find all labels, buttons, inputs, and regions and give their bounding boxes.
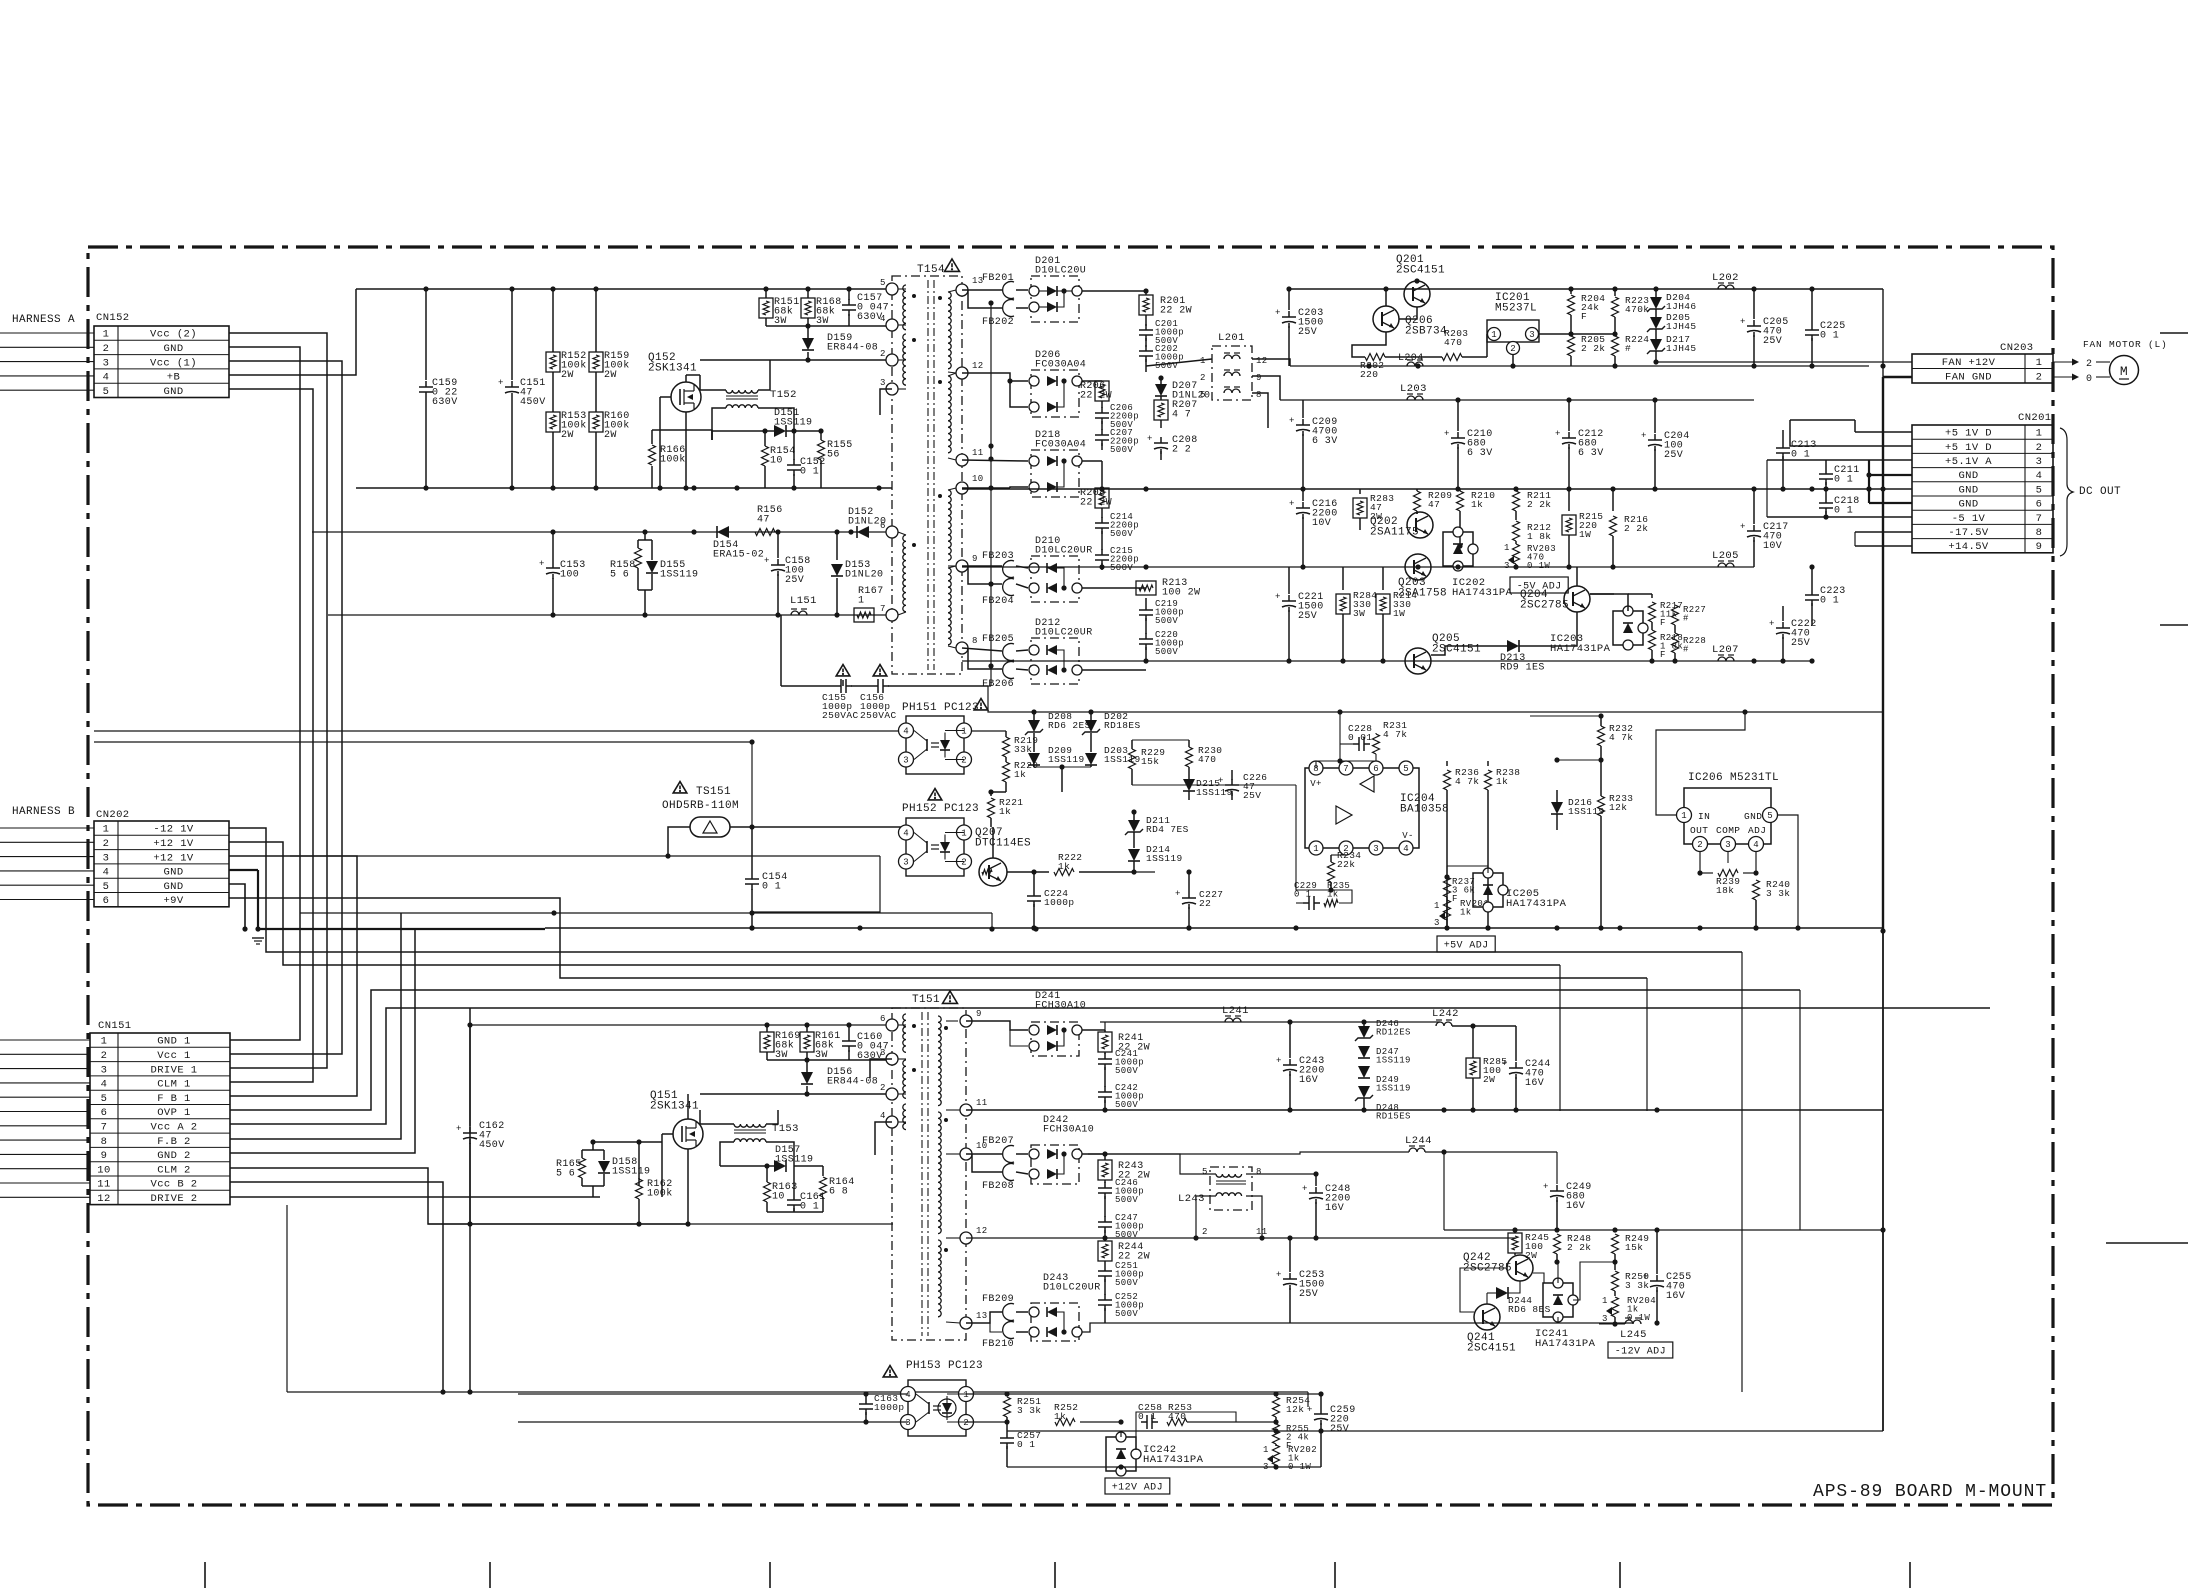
wire D217 to CN203 pin1 [1656, 361, 1912, 363]
svg-text:450V: 450V [520, 397, 546, 408]
svg-text:3: 3 [1373, 844, 1378, 854]
wire pin3 COMP down [1727, 851, 1729, 863]
svg-text:1k: 1k [999, 806, 1011, 817]
svg-text:RD9 1ES: RD9 1ES [1500, 663, 1545, 674]
svg-text:2W: 2W [604, 430, 617, 441]
svg-text:22 2W: 22 2W [1160, 306, 1192, 317]
svg-text:-17.5V: -17.5V [1948, 527, 1989, 539]
bus wire y489 right section [962, 488, 1883, 490]
capacitor C225 [1811, 289, 1813, 324]
wire bus y488 left section [356, 487, 892, 489]
svg-text:3: 3 [880, 1048, 886, 1058]
wire D159 to T154 pin2 [808, 359, 892, 361]
svg-text:#: # [1625, 343, 1631, 354]
capacitor C253 [1289, 1238, 1291, 1272]
svg-text:2SB734: 2SB734 [1405, 326, 1447, 338]
svg-text:GND: GND [163, 881, 183, 893]
connector CN151 stub wires [0, 1039, 90, 1041]
diode D155 [651, 540, 653, 560]
svg-text:2W: 2W [1483, 1074, 1495, 1085]
svg-text:6: 6 [880, 1014, 886, 1024]
capacitor C160 [848, 1025, 850, 1035]
svg-text:F: F [1452, 894, 1458, 904]
wire Q241 emitter row [1323, 1473, 1437, 1475]
svg-text:6 3V: 6 3V [1312, 436, 1338, 447]
svg-text:250VAC: 250VAC [822, 710, 859, 721]
diode D211 RD4 7ES [1128, 820, 1140, 832]
svg-text:HARNESS B: HARNESS B [12, 806, 75, 818]
capacitor C209 [1302, 400, 1304, 418]
svg-text:1SS119: 1SS119 [660, 570, 698, 581]
svg-text:500V: 500V [1155, 647, 1178, 657]
T151 pin 3 [886, 1053, 898, 1065]
svg-text:M: M [2120, 364, 2128, 379]
svg-text:GND 1: GND 1 [157, 1036, 191, 1048]
diode D244 [1496, 1287, 1508, 1299]
capacitor C151 [511, 289, 513, 380]
svg-text:5: 5 [101, 1093, 108, 1105]
svg-text:Vcc A 2: Vcc A 2 [151, 1122, 198, 1134]
svg-text:-5 1V: -5 1V [1952, 513, 1986, 525]
svg-text:1SS119: 1SS119 [774, 418, 812, 429]
T154 pin 11 [956, 454, 968, 466]
svg-text:7: 7 [1343, 764, 1348, 774]
svg-text:FC030A04: FC030A04 [1035, 440, 1086, 451]
svg-text:16V: 16V [1299, 1075, 1318, 1086]
transformer T152 [726, 390, 758, 393]
svg-text:10V: 10V [1312, 518, 1331, 529]
svg-text:1 8k: 1 8k [1527, 531, 1551, 542]
svg-text:2 2k: 2 2k [1527, 499, 1551, 510]
svg-text:2: 2 [880, 1083, 886, 1093]
wire y742 row [94, 741, 752, 743]
svg-text:3: 3 [1434, 918, 1440, 928]
svg-text:RD6 8ES: RD6 8ES [1508, 1304, 1551, 1315]
vertical wire x752 [751, 742, 753, 827]
svg-text:D1NL20: D1NL20 [845, 570, 883, 581]
svg-text:HA17431PA: HA17431PA [1143, 1454, 1204, 1466]
svg-text:2 2: 2 2 [1172, 445, 1191, 456]
svg-text:9: 9 [976, 1009, 982, 1019]
wire +B to top bus [229, 289, 356, 375]
svg-text:1000p: 1000p [1044, 897, 1075, 908]
capacitor C155 with warning [836, 665, 850, 676]
capacitor C152 [793, 431, 795, 460]
wire T151 pin9 to D241 [966, 1021, 1028, 1030]
svg-text:12: 12 [976, 1226, 988, 1236]
svg-text:500V: 500V [1110, 563, 1133, 573]
capacitor C251 [1104, 1261, 1106, 1265]
svg-text:+: + [1769, 619, 1775, 629]
T151 pin connection stubs [898, 1024, 906, 1026]
right ends of fan bundle [1741, 952, 1743, 1392]
svg-text:4 7k: 4 7k [1383, 729, 1407, 740]
wire D210 output [1082, 587, 1146, 589]
svg-text:630V: 630V [432, 397, 458, 408]
vertical riser x1855 [1854, 532, 1856, 546]
svg-text:HARNESS A: HARNESS A [12, 314, 75, 326]
svg-text:6 8: 6 8 [829, 1187, 848, 1198]
potentiometer RV201 [1444, 900, 1451, 920]
svg-text:630V: 630V [857, 312, 883, 323]
T151 pin 9 [960, 1015, 972, 1027]
svg-text:L205: L205 [1712, 550, 1739, 562]
svg-text:FB204: FB204 [982, 596, 1014, 607]
svg-text:3: 3 [1504, 561, 1510, 571]
svg-text:2SC4151: 2SC4151 [1467, 1343, 1516, 1355]
capacitor C154 [751, 827, 753, 873]
svg-text:+: + [456, 1124, 462, 1134]
T154 pin 3 [886, 383, 898, 395]
capacitor C158 [777, 532, 779, 558]
svg-text:18k: 18k [1716, 885, 1734, 896]
diode D151 [440, 769, 712, 771]
T154 pin 13 [956, 284, 968, 296]
svg-text:2: 2 [101, 1050, 108, 1062]
diode D157 [774, 1160, 786, 1172]
svg-text:ER844-08: ER844-08 [827, 1077, 878, 1088]
diode D154 [717, 526, 729, 538]
resistor R207 [1160, 396, 1162, 400]
wire T154 pin11 pin10 to D218 [962, 460, 1028, 461]
capacitor C204 [1654, 400, 1656, 433]
svg-text:+14.5V: +14.5V [1948, 541, 1989, 553]
svg-text:+: + [1275, 308, 1281, 318]
wire y760 junction row [1557, 759, 1601, 761]
svg-text:12: 12 [1256, 356, 1268, 366]
wire joining R169 R161 C160 [767, 1059, 849, 1061]
capacitor C202 [1145, 338, 1147, 347]
svg-text:1SS119: 1SS119 [775, 1155, 813, 1166]
svg-text:+: + [1444, 429, 1450, 439]
svg-text:7: 7 [101, 1122, 108, 1134]
svg-text:2: 2 [103, 838, 110, 850]
svg-text:FB206: FB206 [982, 679, 1014, 690]
svg-text:+: + [498, 378, 504, 388]
svg-text:1: 1 [1602, 1296, 1608, 1306]
svg-text:11: 11 [976, 1098, 988, 1108]
top bus wire y289 [356, 288, 892, 290]
svg-text:RD6 2ES: RD6 2ES [1048, 720, 1091, 731]
long horizontal wire y686 mains side [692, 685, 781, 687]
capacitor C203 [1288, 289, 1290, 310]
svg-text:+: + [1302, 1184, 1308, 1194]
resistor R238 [1487, 761, 1489, 766]
bus junction dots top [423, 286, 428, 291]
resistor R155 [820, 431, 822, 440]
svg-text:GND: GND [163, 867, 183, 879]
svg-text:10: 10 [972, 474, 984, 484]
svg-text:F: F [1660, 650, 1666, 660]
svg-text:4: 4 [2036, 470, 2043, 482]
svg-text:6: 6 [880, 521, 886, 531]
svg-text:+5 1V D: +5 1V D [1945, 428, 1992, 440]
svg-text:L241: L241 [1222, 1005, 1249, 1017]
wire y1238 pin12 row [966, 1237, 1516, 1239]
right alignment marks [2160, 332, 2188, 334]
capacitor C226 [1225, 784, 1239, 786]
resistor R230 [1186, 747, 1193, 767]
resistor R252 [1055, 1419, 1075, 1426]
svg-text:250VAC: 250VAC [860, 710, 897, 721]
capacitor C224 [1033, 872, 1035, 890]
wire from PH151 pin1 right [962, 730, 1006, 732]
svg-text:10: 10 [772, 1192, 785, 1203]
vertical bus x1869 GND [1868, 460, 1870, 503]
svg-text:2: 2 [1697, 840, 1702, 850]
svg-text:4 7: 4 7 [1172, 410, 1191, 421]
svg-text:7: 7 [880, 604, 886, 614]
harness B stub wires [0, 827, 94, 829]
svg-text:T151: T151 [912, 994, 940, 1006]
svg-text:8: 8 [101, 1136, 108, 1148]
capacitor C214 [1101, 508, 1103, 518]
svg-text:0 1: 0 1 [1834, 506, 1853, 517]
svg-text:4 7k: 4 7k [1455, 776, 1479, 787]
svg-text:0 1: 0 1 [1791, 450, 1810, 461]
wire PH153 pin2 to R252 row [966, 1421, 1007, 1423]
resistor R151 [765, 289, 767, 298]
svg-text:1SS119: 1SS119 [1196, 787, 1233, 798]
diode D152 [857, 526, 869, 538]
svg-text:+: + [1543, 1182, 1549, 1192]
svg-text:4: 4 [905, 1390, 910, 1400]
svg-text:CN151: CN151 [98, 1020, 132, 1032]
diode D153 [836, 532, 838, 560]
resistor R237 [1444, 877, 1451, 897]
svg-text:500V: 500V [1155, 616, 1178, 626]
wire TS151 connections [668, 827, 690, 856]
svg-text:1k: 1k [1471, 499, 1483, 510]
svg-text:1k: 1k [1054, 1411, 1066, 1422]
svg-text:+: + [1147, 434, 1153, 444]
svg-text:FB209: FB209 [982, 1294, 1014, 1305]
svg-text:1: 1 [1263, 1445, 1269, 1455]
ferrite bead FB203 [1003, 561, 1014, 578]
svg-text:3: 3 [101, 1064, 108, 1076]
resistor R227 [1672, 605, 1679, 625]
resistor R255 [1275, 1422, 1277, 1424]
capacitor C221 [1288, 567, 1290, 594]
svg-text:2: 2 [961, 858, 966, 868]
wire IC206 pin1 from y712 [1656, 712, 1745, 815]
svg-text:56: 56 [827, 450, 840, 461]
resistor R211 [1515, 489, 1517, 491]
wire y1394 PH153 top row [470, 1393, 908, 1395]
harness A stub wires [0, 332, 94, 334]
svg-text:COMP: COMP [1716, 825, 1740, 836]
svg-text:+: + [1289, 416, 1295, 426]
svg-text:+5 1V D: +5 1V D [1945, 442, 1992, 454]
wire L243 lower winding [1196, 1196, 1216, 1238]
svg-text:1k: 1k [1014, 769, 1026, 780]
svg-text:3: 3 [1602, 1314, 1608, 1324]
wire y856 row [290, 855, 880, 857]
svg-text:ADJ: ADJ [1748, 825, 1766, 836]
IC241 HA17431PA [1543, 1283, 1573, 1317]
resistor R164 [822, 1166, 824, 1176]
svg-text:2 2k: 2 2k [1567, 1242, 1591, 1253]
svg-text:13: 13 [976, 1311, 988, 1321]
svg-text:0 1: 0 1 [800, 1202, 819, 1213]
capacitor C163 [865, 1394, 867, 1398]
svg-text:1000p: 1000p [874, 1402, 905, 1413]
svg-text:2W: 2W [604, 370, 617, 381]
vertical fan wires from CN152 [229, 333, 327, 1068]
resistor R204 [1570, 289, 1572, 294]
svg-text:5 6: 5 6 [610, 570, 629, 581]
svg-text:100 2W: 100 2W [1162, 588, 1200, 599]
resistor R236 [1446, 761, 1448, 766]
svg-text:#: # [1683, 645, 1689, 655]
svg-text:#: # [1683, 614, 1689, 624]
IC203 HA17431PA [1613, 611, 1643, 645]
resistor R167 [854, 608, 874, 622]
svg-text:L244: L244 [1405, 1135, 1432, 1147]
capacitor C217 [1753, 489, 1755, 524]
svg-text:CLM 2: CLM 2 [157, 1164, 191, 1176]
svg-text:CLM 1: CLM 1 [157, 1079, 191, 1091]
svg-text:DTC114ES: DTC114ES [975, 838, 1031, 850]
svg-text:+: + [1641, 431, 1647, 441]
resistor R210 [1459, 489, 1461, 491]
wire D243 out y1323 row [1082, 1323, 1290, 1332]
svg-text:3: 3 [103, 357, 110, 369]
svg-text:500V: 500V [1110, 529, 1133, 539]
svg-text:22k: 22k [1337, 859, 1355, 870]
choke L244 [1409, 1148, 1425, 1152]
svg-text:+: + [1502, 1059, 1508, 1069]
svg-text:2: 2 [103, 343, 110, 355]
svg-text:RD4 7ES: RD4 7ES [1146, 824, 1189, 835]
T154 pin 12 [956, 367, 968, 379]
capacitor C247 [1104, 1196, 1106, 1217]
T154 pin 10 [956, 482, 968, 494]
capacitor C153 [552, 532, 554, 562]
svg-text:16V: 16V [1525, 1078, 1544, 1089]
svg-text:Vcc B 2: Vcc B 2 [151, 1179, 198, 1191]
svg-text:+: + [1276, 1056, 1282, 1066]
svg-text:2: 2 [1200, 373, 1206, 383]
svg-text:1JH45: 1JH45 [1666, 343, 1697, 354]
svg-text:4: 4 [1403, 844, 1408, 854]
svg-text:500V: 500V [1115, 1100, 1138, 1110]
wire D209 D203 join [1034, 766, 1091, 768]
choke L245 [1625, 1320, 1641, 1324]
resistor R232 [1598, 726, 1605, 746]
capacitor C159 [425, 289, 427, 380]
transistor Q202 2SA1175 [1407, 512, 1433, 538]
T151 pin 12 [960, 1232, 972, 1244]
ferrite bead FB205 [1003, 644, 1014, 661]
wire T151 pin13 to FB209 FB210 [966, 1312, 1002, 1323]
svg-text:100: 100 [560, 570, 579, 581]
svg-text:16V: 16V [1325, 1203, 1344, 1214]
resistor R152 [552, 289, 554, 352]
resistor R239 [1718, 870, 1738, 877]
svg-text:FC030A04: FC030A04 [1035, 360, 1086, 371]
svg-text:FB207: FB207 [982, 1136, 1014, 1147]
svg-text:IC206 M5231TL: IC206 M5231TL [1688, 772, 1779, 784]
optocoupler PH153 PC123 [883, 1366, 897, 1377]
svg-text:1: 1 [1504, 543, 1510, 553]
diode D158 [603, 1150, 605, 1160]
wire y1394 to C259 [1007, 1393, 1276, 1395]
transistor Q205 2SC4151 [1405, 648, 1431, 674]
T154 pin 8 [956, 642, 968, 654]
capacitor C258 [1146, 1415, 1148, 1429]
svg-text:APS-89 BOARD M-MOUNT: APS-89 BOARD M-MOUNT [1813, 1482, 2047, 1502]
wire L243 pin8 to C248 [1246, 1173, 1316, 1175]
svg-text:FB201: FB201 [982, 273, 1014, 284]
svg-text:1k: 1k [1460, 908, 1472, 918]
svg-text:M5237L: M5237L [1495, 303, 1537, 315]
svg-text:15k: 15k [1141, 756, 1159, 767]
capacitor C259 [1320, 1394, 1322, 1408]
svg-text:FAN GND: FAN GND [1945, 371, 1992, 383]
svg-text:0 1: 0 1 [800, 467, 819, 478]
resistor R160 [589, 412, 603, 432]
IC202 HA17431PA [1443, 532, 1473, 566]
svg-text:25V: 25V [1664, 450, 1683, 461]
svg-text:L245: L245 [1620, 1329, 1647, 1341]
wire y712 top of control band [988, 686, 1031, 712]
svg-text:2: 2 [963, 1418, 968, 1428]
svg-text:12k: 12k [1286, 1404, 1304, 1415]
svg-text:FCH30A10: FCH30A10 [1035, 1001, 1086, 1012]
svg-text:2: 2 [880, 349, 886, 359]
svg-text:1: 1 [1200, 356, 1206, 366]
svg-text:6: 6 [2036, 499, 2043, 511]
svg-text:4: 4 [103, 867, 110, 879]
choke L151 [791, 611, 807, 615]
resistor R243 [1098, 1160, 1112, 1180]
svg-text:1k: 1k [1496, 776, 1508, 787]
svg-text:3: 3 [1725, 840, 1730, 850]
svg-text:1SS119: 1SS119 [1376, 1084, 1411, 1094]
svg-text:+: + [764, 556, 770, 566]
capacitor C161 [793, 1180, 795, 1194]
svg-text:220: 220 [1360, 369, 1378, 380]
svg-text:3: 3 [2036, 456, 2043, 468]
resistor R208 [1095, 488, 1109, 508]
resistor R245 [1508, 1233, 1522, 1253]
svg-text:GND: GND [1958, 470, 1978, 482]
svg-text:RD18ES: RD18ES [1104, 720, 1141, 731]
svg-text:+: + [1740, 317, 1746, 327]
vertical bus x1883 upper [1882, 289, 1884, 377]
resistor R206 [1095, 381, 1109, 401]
resistor R159 [595, 289, 597, 352]
svg-text:450V: 450V [479, 1140, 505, 1151]
svg-text:22 2W: 22 2W [1080, 498, 1112, 509]
T151 pin 10 [960, 1148, 972, 1160]
svg-text:6: 6 [103, 895, 110, 907]
resistor R202 [1365, 354, 1385, 361]
capacitor C255 [1656, 1230, 1658, 1274]
svg-text:OHD5RB-110M: OHD5RB-110M [662, 800, 739, 812]
svg-text:1SS119: 1SS119 [612, 1167, 650, 1178]
ferrite bead FB206 [1003, 662, 1014, 679]
choke L202 [1718, 285, 1734, 289]
wire y1152 L244 row [1360, 1151, 1444, 1153]
ferrite bead FB202 [1003, 300, 1014, 317]
wire IC206 pin2 down [1620, 851, 1700, 928]
capacitor C210 [1457, 400, 1459, 431]
wire D242 to R243 [1082, 1153, 1105, 1155]
wire y1224 lower bus [428, 1223, 893, 1225]
diode D156 [806, 1060, 808, 1072]
